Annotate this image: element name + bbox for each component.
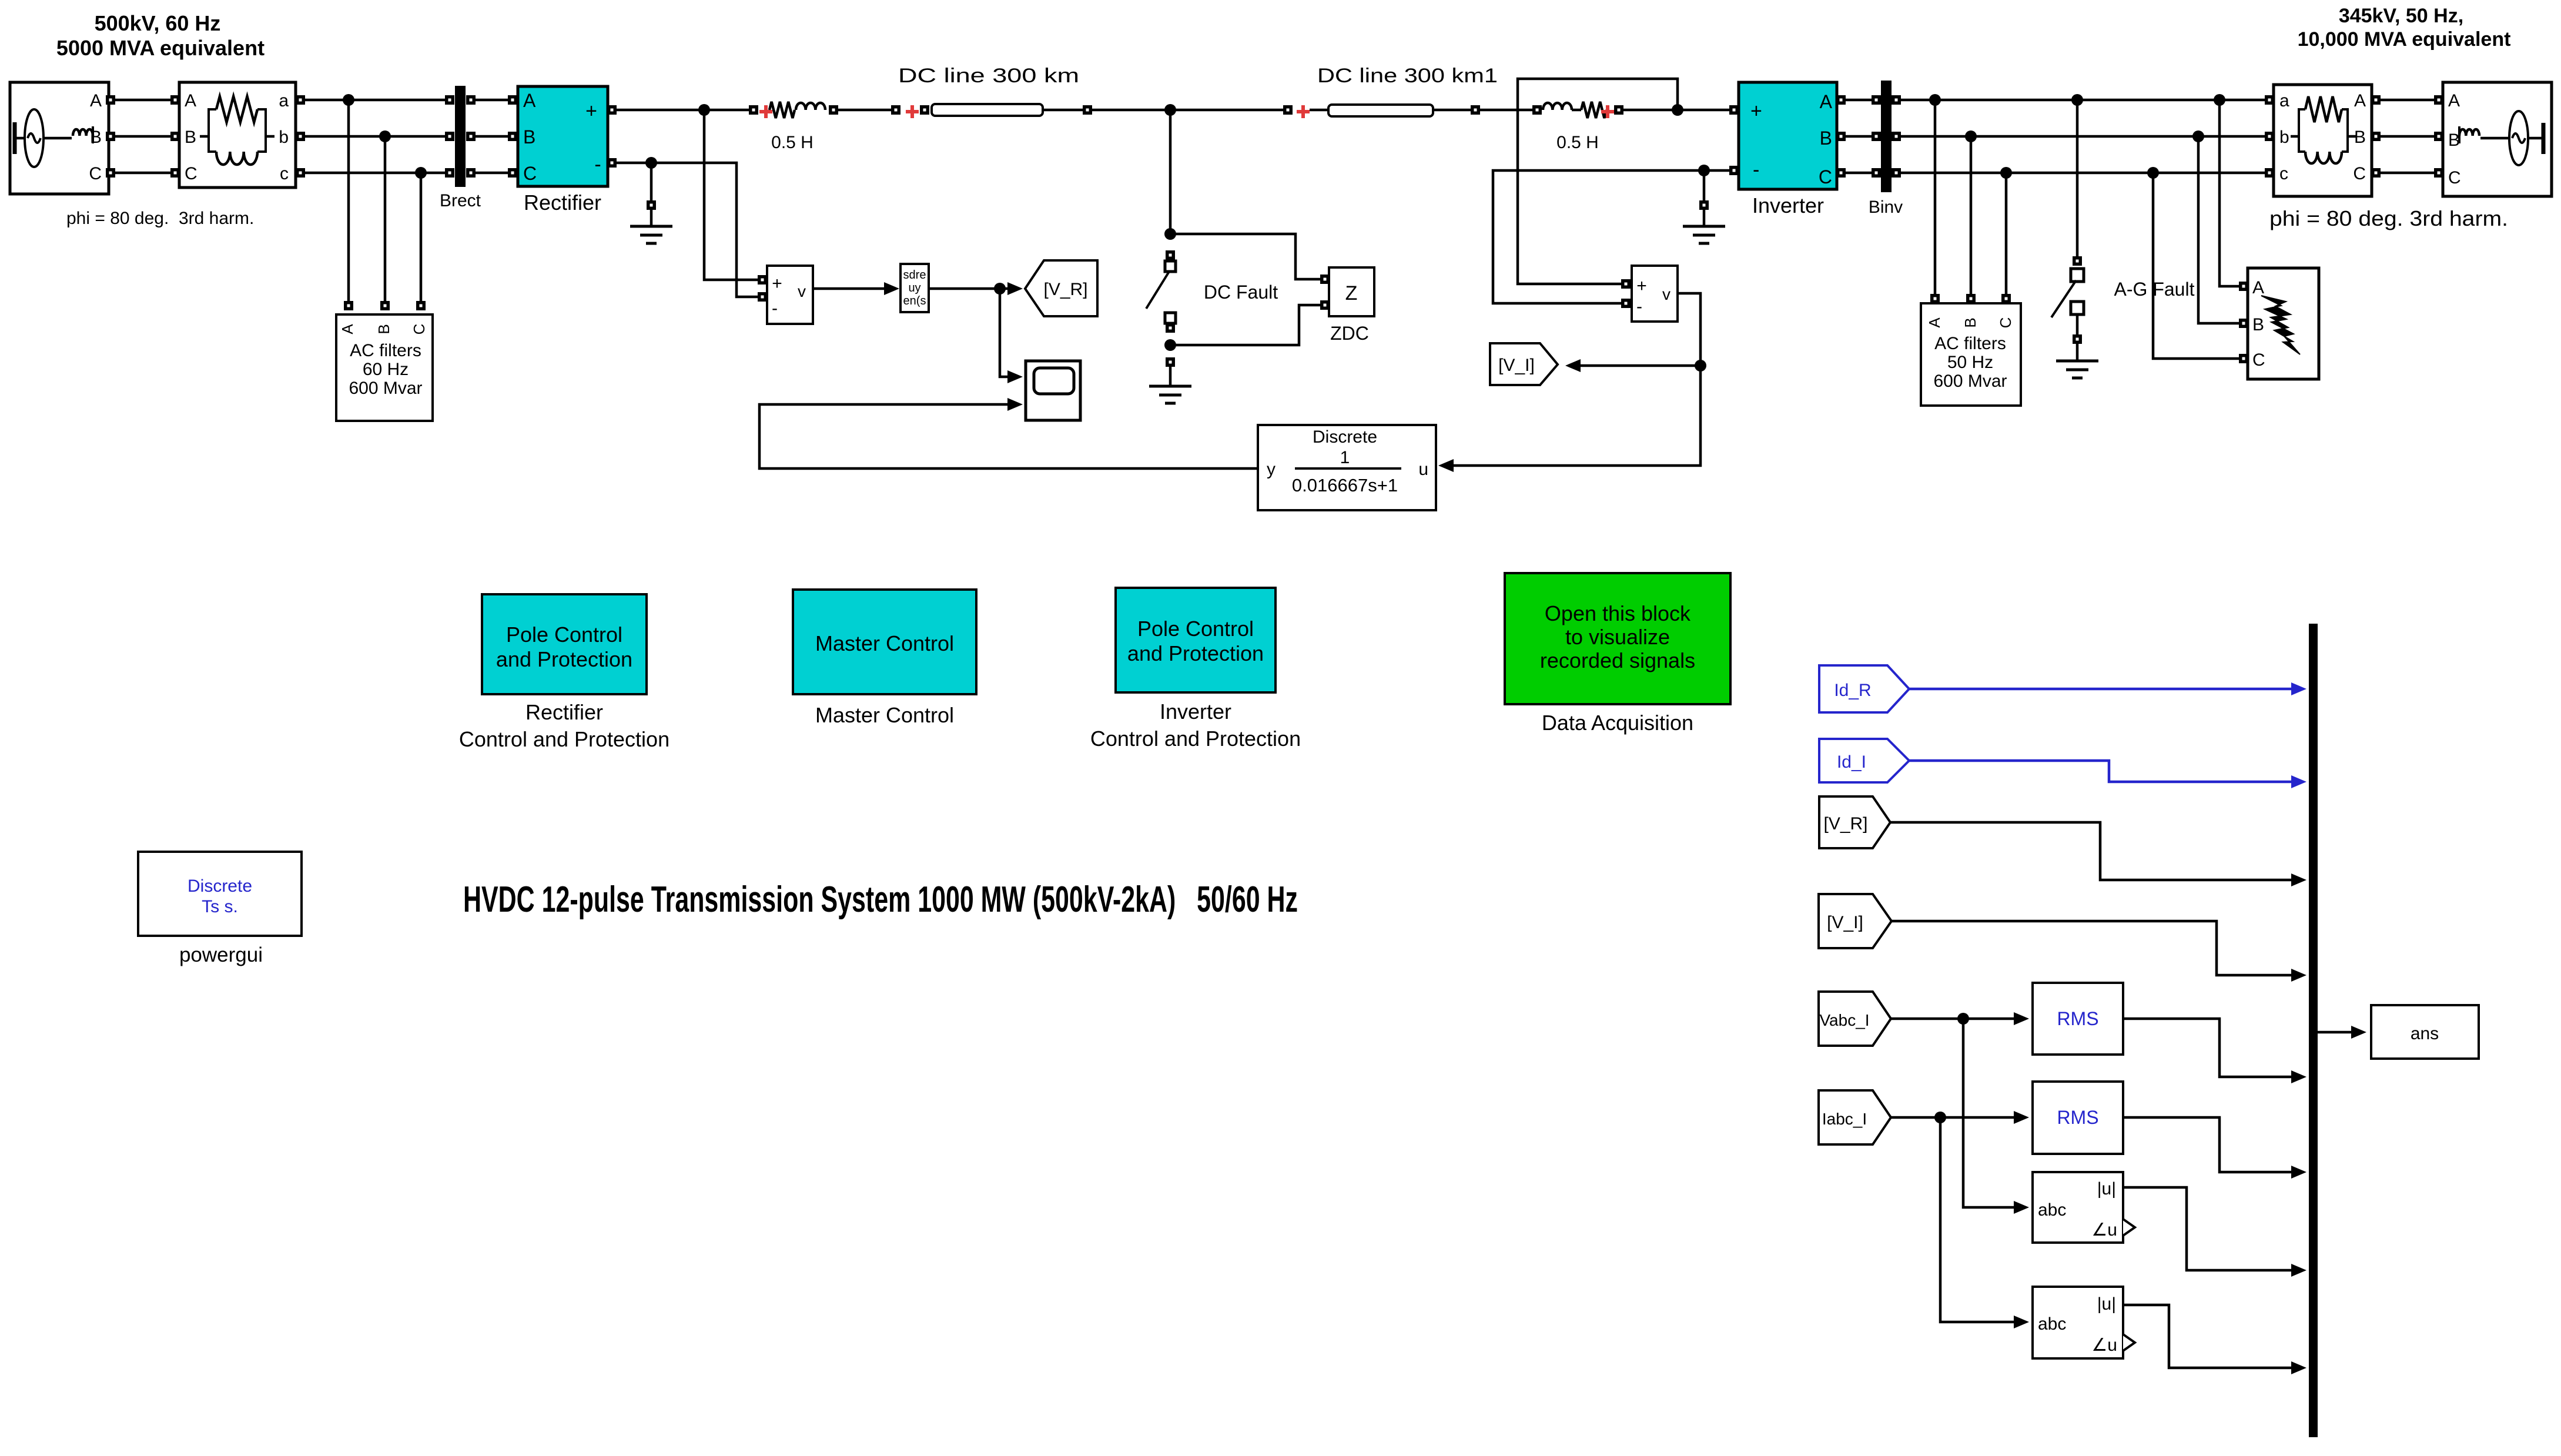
- node C filter tap: [415, 167, 427, 179]
- node C filter tap right: [2000, 167, 2012, 179]
- svg-text:and Protection: and Protection: [496, 647, 632, 671]
- svg-text:0.5 H: 0.5 H: [771, 133, 814, 152]
- wire over-loop to VM2 +: [1518, 79, 1678, 284]
- svg-text:B: B: [1961, 317, 1979, 327]
- svg-text:+: +: [1750, 100, 1762, 122]
- svg-text:Data Acquisition: Data Acquisition: [1542, 711, 1693, 735]
- svg-text:Pole Control: Pole Control: [506, 622, 622, 647]
- port smoothing reactor L1 in: [749, 105, 758, 115]
- port C AC filters 60Hz: [416, 301, 426, 310]
- red plus marker 3: [1297, 105, 1310, 118]
- port B Binv right: [1892, 132, 1901, 141]
- port DC line2 in: [1283, 105, 1293, 115]
- node B filter tap right: [1965, 130, 1977, 142]
- AC filters 50 Hz block: [1921, 303, 2021, 406]
- system impedance block right (parallel RL): [2274, 85, 2372, 196]
- port ground rectifier: [647, 200, 656, 210]
- svg-text:C: C: [2252, 350, 2265, 370]
- wire: [1572, 109, 1581, 112]
- port DC line2 out: [1471, 105, 1480, 115]
- A-G switch blade: [2051, 280, 2076, 317]
- ground of DC fault: [1149, 386, 1191, 403]
- wire down to ground port: [650, 163, 653, 200]
- wire B tap down to AC filters: [384, 136, 387, 301]
- node DC+ voltage tap: [698, 104, 710, 116]
- port A Brect right: [466, 95, 476, 105]
- arrow RMS1: [2291, 1070, 2306, 1083]
- stub wire RL box to b: [266, 135, 274, 138]
- port A AC filters 50Hz: [1930, 294, 1940, 303]
- wire to ground 2: [2076, 344, 2079, 361]
- svg-text:ZDC: ZDC: [1330, 323, 1369, 344]
- svg-text:Id_R: Id_R: [1834, 681, 1871, 700]
- svg-text:abc: abc: [2038, 1314, 2066, 1334]
- port A impedance R out: [2371, 95, 2381, 105]
- svg-text:A: A: [2354, 91, 2366, 111]
- port DC line1 in: [920, 105, 929, 115]
- node DC fault top: [1164, 228, 1176, 240]
- svg-text:C: C: [2353, 164, 2366, 183]
- svg-text:600 Mvar: 600 Mvar: [349, 379, 422, 398]
- svg-text:Binv: Binv: [1869, 198, 1903, 217]
- wire RMS1 to bus: [2123, 1019, 2294, 1077]
- port fault ground: [1166, 357, 1175, 367]
- svg-text:C: C: [523, 163, 537, 184]
- source R terminal bar: [2542, 123, 2546, 154]
- red plus marker: [759, 105, 772, 118]
- resistor of 0.5H reactor: [769, 102, 795, 118]
- wire to V_I tag: [1578, 364, 1700, 367]
- port C Binv left: [1872, 168, 1881, 178]
- svg-text:+: +: [585, 100, 597, 122]
- wire A-G switch down: [2076, 100, 2079, 259]
- svg-text:uy: uy: [908, 282, 920, 294]
- signal conversion block: [900, 264, 929, 312]
- wire C Brect-rectifier: [476, 172, 508, 175]
- svg-text:[V_I]: [V_I]: [1498, 356, 1535, 375]
- port A source L: [106, 95, 115, 105]
- svg-text:Discrete: Discrete: [1313, 427, 1377, 447]
- AC voltage source symbol right: [2509, 111, 2528, 165]
- port - rectifier out: [607, 158, 617, 168]
- arrow abc1: [2291, 1264, 2306, 1277]
- wire discrete out to scope input 2: [759, 404, 1258, 468]
- svg-text:Master Control: Master Control: [815, 703, 954, 727]
- svg-text:345kV, 50 Hz,: 345kV, 50 Hz,: [2339, 5, 2463, 27]
- port A-G switch top: [2073, 256, 2082, 266]
- port C inverter out: [1836, 168, 1846, 178]
- svg-text:v: v: [1662, 285, 1670, 303]
- svg-text:[V_I]: [V_I]: [1827, 913, 1863, 932]
- svg-text:y: y: [1267, 460, 1276, 479]
- port + inverter in: [1729, 105, 1739, 115]
- Inverter converter block: [1739, 82, 1837, 189]
- svg-text:60 Hz: 60 Hz: [363, 360, 409, 379]
- chevron output 1: [2123, 1219, 2135, 1236]
- svg-text:A: A: [1820, 91, 1833, 112]
- port B Brect right: [466, 132, 476, 141]
- svg-text:B: B: [2252, 315, 2264, 334]
- wire: [1310, 109, 1328, 112]
- arrow RMS2: [2291, 1166, 2306, 1179]
- A-G switch contact bottom: [2071, 302, 2084, 314]
- svg-text:AC filters: AC filters: [1934, 334, 2006, 353]
- breaker contact top: [1165, 261, 1176, 272]
- port smoothing reactor L2 in: [1532, 105, 1542, 115]
- parallel RL frame right: [2299, 109, 2348, 152]
- port B source R: [2434, 132, 2443, 141]
- wire: [15, 137, 25, 140]
- svg-text:DC line 300 km1: DC line 300 km1: [1317, 65, 1498, 87]
- wire reactor to inverter: [1623, 109, 1729, 112]
- wire phase B to Brect: [300, 135, 446, 138]
- svg-text:600 Mvar: 600 Mvar: [1933, 371, 2007, 391]
- stub wire RL box to B: [2348, 135, 2356, 138]
- wire line2 out: [1433, 109, 1471, 112]
- wire C down to AC filters right: [2005, 173, 2008, 294]
- source impedance coil icon: [73, 129, 93, 136]
- AC source block left (500kV equivalent source): [10, 82, 109, 194]
- svg-text:Discrete: Discrete: [188, 876, 252, 896]
- svg-text:∠u: ∠u: [2091, 1220, 2117, 1240]
- svg-text:[V_R]: [V_R]: [1823, 814, 1867, 834]
- svg-text:-: -: [1753, 159, 1759, 181]
- svg-text:[V_R]: [V_R]: [1043, 280, 1087, 299]
- goto tag V_R: [1025, 260, 1097, 316]
- svg-text:Control and Protection: Control and Protection: [459, 727, 669, 751]
- port C Brect right: [466, 168, 476, 178]
- port A Binv left: [1872, 95, 1881, 105]
- ground of A-G switch: [2056, 361, 2098, 378]
- svg-text:∠u: ∠u: [2091, 1335, 2117, 1355]
- svg-text:C: C: [185, 164, 197, 183]
- svg-text:0.016667s+1: 0.016667s+1: [1292, 475, 1398, 496]
- wire abc2 to bus: [2123, 1305, 2294, 1368]
- svg-text:a: a: [279, 91, 289, 111]
- arrow into scope input 2: [1007, 398, 1023, 411]
- port C impedance L in: [170, 168, 180, 178]
- abc magnitude-angle block 1: [2033, 1172, 2123, 1243]
- breaker contact bottom: [1165, 313, 1176, 323]
- port C source R: [2434, 168, 2443, 178]
- svg-text:recorded signals: recorded signals: [1540, 648, 1695, 672]
- svg-text:50 Hz: 50 Hz: [1947, 353, 1993, 372]
- chevron output 2: [2123, 1334, 2135, 1351]
- svg-text:+: +: [772, 274, 782, 293]
- AC filters 60 Hz block: [336, 314, 433, 421]
- svg-text:B: B: [523, 126, 535, 148]
- ZDC impedance block: [1329, 267, 1374, 316]
- svg-text:DC Fault: DC Fault: [1204, 282, 1278, 303]
- port A fault block: [2239, 282, 2248, 291]
- node Iabc branch: [1934, 1112, 1946, 1123]
- arrow into ans: [2351, 1026, 2366, 1039]
- port A inverter out: [1836, 95, 1846, 105]
- svg-text:A: A: [1926, 317, 1943, 328]
- wire abc1 to bus: [2123, 1187, 2294, 1270]
- wire branch down to scope: [1000, 289, 1016, 377]
- port C source L: [106, 168, 115, 178]
- svg-text:Open this block: Open this block: [1545, 601, 1691, 625]
- svg-text:C: C: [2448, 168, 2461, 188]
- svg-text:Pole Control: Pole Control: [1137, 617, 1254, 641]
- ground under inverter: [1683, 226, 1725, 243]
- node fault C tap: [2147, 167, 2159, 179]
- port smoothing reactor L2 out: [1614, 105, 1623, 115]
- port - VM1: [758, 292, 767, 302]
- from tag V_I: [1819, 894, 1892, 948]
- port ZDC in1: [1320, 275, 1330, 284]
- wire fault bottom to ZDC in2: [1170, 305, 1320, 345]
- Rectifier converter block: [518, 86, 608, 186]
- port + VM1: [758, 275, 767, 284]
- wire: [43, 137, 72, 140]
- arrow into V_I tag: [1565, 359, 1581, 372]
- node DC mid: [1164, 104, 1176, 116]
- wire phase B right: [1901, 135, 2265, 138]
- svg-text:Control and Protection: Control and Protection: [1090, 727, 1301, 751]
- port - inverter in: [1729, 166, 1739, 175]
- svg-text:u: u: [1418, 460, 1428, 479]
- port C AC filters 50Hz: [2001, 294, 2011, 303]
- wire A to source R: [2381, 99, 2434, 102]
- signal bus bar: [2309, 624, 2318, 1437]
- node B filter tap: [379, 130, 391, 142]
- from tag Vabc_I: [1819, 992, 1891, 1046]
- node A filter tap right: [1929, 94, 1941, 106]
- wire: [2528, 137, 2542, 140]
- svg-text:DC line 300 km: DC line 300 km: [898, 65, 1079, 87]
- port B impedance L in: [170, 132, 180, 141]
- wire A inverter-Binv: [1846, 99, 1875, 102]
- wire DC+ rectifier to smoothing reactor: [617, 109, 749, 112]
- svg-text:B: B: [375, 324, 393, 334]
- Inverter pole control block: [1116, 588, 1276, 692]
- wire phase A to Brect: [300, 99, 446, 102]
- wire Iabc down to abc2: [1940, 1117, 2017, 1322]
- wire down to ground port: [1703, 170, 1706, 200]
- fraction bar: [1295, 467, 1401, 470]
- svg-text:v: v: [798, 282, 806, 300]
- svg-text:Z: Z: [1345, 282, 1358, 304]
- port B AC filters 60Hz: [380, 301, 390, 310]
- svg-text:a: a: [2279, 91, 2289, 111]
- wire Vabc down to abc1: [1963, 1019, 2017, 1207]
- svg-text:Master Control: Master Control: [815, 631, 954, 655]
- red plus marker 4: [1601, 105, 1614, 118]
- wire Id_I to bus: [1909, 761, 2294, 782]
- svg-text:phi = 80 deg. 3rd harm.: phi = 80 deg. 3rd harm.: [66, 209, 254, 228]
- svg-text:b: b: [279, 128, 289, 147]
- svg-text:1: 1: [1340, 448, 1350, 467]
- svg-text:and Protection: and Protection: [1127, 641, 1264, 665]
- svg-text:b: b: [2279, 128, 2289, 147]
- from tag Id_I: [1819, 739, 1909, 782]
- arrow V_I: [2291, 969, 2306, 982]
- source L terminal bar: [13, 122, 17, 154]
- wire fault A: [2219, 100, 2239, 286]
- from tag Id_R: [1819, 665, 1909, 712]
- wire: [650, 210, 653, 226]
- port breaker bottom: [1166, 323, 1175, 333]
- wire bus to ans: [2318, 1031, 2354, 1034]
- port ground inverter: [1699, 200, 1709, 210]
- wire phase C source-impedance: [115, 172, 170, 175]
- port c impedance R: [2265, 168, 2274, 178]
- wire fault C: [2153, 173, 2239, 359]
- arrow into conversion block: [884, 282, 899, 295]
- node Vabc branch: [1957, 1013, 1969, 1025]
- svg-text:A: A: [2448, 91, 2460, 111]
- stub wire b to RL box: [2291, 135, 2299, 138]
- wire RMS2 to bus: [2123, 1117, 2294, 1172]
- wire: [2480, 137, 2508, 140]
- port a impedance R: [2265, 95, 2274, 105]
- wire fault node to ZDC in1: [1170, 234, 1320, 279]
- wire phase B source-impedance: [115, 135, 170, 138]
- wire reactor to line segment: [838, 109, 891, 112]
- wire DC- rectifier: [617, 163, 758, 297]
- arrow into RMS1: [2014, 1012, 2029, 1025]
- wire to ground: [2076, 313, 2079, 334]
- ground under rectifier: [630, 226, 672, 243]
- source impedance coil icon right: [2459, 129, 2479, 136]
- wire: [1703, 210, 1706, 226]
- wire A down to AC filters right: [1934, 100, 1937, 294]
- arrow into abc2: [2014, 1316, 2029, 1328]
- AC voltage source symbol (ellipse with sine): [25, 109, 43, 167]
- inductor L of parallel RL right: [2305, 152, 2342, 163]
- port A AC filters 60Hz: [344, 301, 353, 310]
- svg-text:+: +: [1636, 276, 1647, 296]
- node V_I branch: [1695, 360, 1706, 371]
- wire phase A right: [1901, 99, 2265, 102]
- port C rectifier: [508, 168, 517, 178]
- port ZDC in2: [1320, 300, 1330, 310]
- arrow into discrete block: [1438, 459, 1454, 472]
- wire C tap down to AC filters: [420, 173, 423, 301]
- wire B to source R: [2381, 135, 2434, 138]
- svg-text:-: -: [594, 153, 601, 176]
- port B impedance R out: [2371, 132, 2381, 141]
- svg-text:Id_I: Id_I: [1837, 752, 1866, 772]
- Brect bus bar: [455, 86, 466, 187]
- svg-text:5000 MVA equivalent: 5000 MVA equivalent: [56, 36, 265, 60]
- svg-text:C: C: [89, 164, 102, 183]
- port C impedance R out: [2371, 168, 2381, 178]
- AC source block right (345kV equivalent source): [2443, 82, 2552, 196]
- svg-text:-: -: [1636, 297, 1642, 316]
- RMS block 1: [2033, 983, 2123, 1055]
- port A-G switch bottom: [2073, 334, 2082, 344]
- port - VM2: [1621, 299, 1631, 308]
- svg-text:RMS: RMS: [2057, 1107, 2098, 1128]
- wire fault B: [2198, 136, 2239, 323]
- port B fault block: [2239, 319, 2248, 328]
- svg-text:Inverter: Inverter: [1160, 699, 1231, 724]
- resistor R of parallel RL right: [2305, 96, 2342, 122]
- Master Control block: [793, 590, 976, 694]
- wire B Brect-rectifier: [476, 135, 508, 138]
- arrow into scope input 1: [1007, 370, 1023, 383]
- wire C inverter-Binv: [1846, 172, 1875, 175]
- wire phase C to Brect: [300, 172, 446, 175]
- resistor R of parallel RL: [216, 96, 257, 122]
- Rectifier pole control block: [482, 594, 647, 694]
- svg-text:Ts s.: Ts s.: [202, 897, 238, 916]
- port B rectifier: [508, 132, 517, 141]
- port b impedance R: [2265, 132, 2274, 141]
- node DC- ground tap: [645, 157, 657, 169]
- port + rectifier out: [607, 105, 617, 115]
- svg-text:B: B: [1820, 128, 1832, 149]
- wire inverter minus: [1493, 170, 1729, 303]
- port breaker top: [1166, 250, 1175, 260]
- svg-text:C: C: [410, 324, 428, 335]
- A-G switch contact top: [2071, 269, 2084, 282]
- svg-text:abc: abc: [2038, 1200, 2066, 1220]
- RMS block 2: [2033, 1082, 2123, 1154]
- DC line 300 km1 block: [1328, 105, 1433, 116]
- arrow Id_I: [2291, 775, 2306, 788]
- svg-text:Rectifier: Rectifier: [525, 700, 603, 724]
- DC line 300 km block: [932, 104, 1043, 116]
- inductor L of parallel RL: [216, 152, 257, 165]
- wire DC mid node down: [1169, 110, 1172, 234]
- svg-text:en(s: en(s: [903, 294, 926, 307]
- abc magnitude-angle block 2: [2033, 1287, 2123, 1358]
- goto tag V_I: [1490, 343, 1558, 385]
- svg-text:c: c: [280, 164, 289, 183]
- arrow Id_R: [2291, 682, 2306, 695]
- port A Brect left: [445, 95, 454, 105]
- port A source R: [2434, 95, 2443, 105]
- svg-text:C: C: [1819, 166, 1832, 188]
- node fault A tap: [2214, 94, 2225, 106]
- resistor of inverter 0.5H reactor: [1581, 102, 1606, 118]
- inductor of 0.5H reactor: [796, 103, 825, 110]
- Binv bus bar: [1881, 81, 1892, 192]
- port C Brect left: [445, 168, 454, 178]
- svg-text:B: B: [185, 128, 196, 147]
- svg-text:RMS: RMS: [2057, 1008, 2098, 1029]
- arrow abc2: [2291, 1361, 2306, 1374]
- wire Id_R to bus: [1909, 688, 2294, 691]
- port smoothing reactor L1 out: [829, 105, 838, 115]
- wire Iabc_I to RMS2: [1891, 1116, 2017, 1119]
- svg-text:Vabc_I: Vabc_I: [1819, 1011, 1869, 1029]
- svg-text:Rectifier: Rectifier: [524, 190, 601, 215]
- port current measure in: [891, 105, 900, 115]
- port B Binv left: [1872, 132, 1881, 141]
- port B inverter out: [1836, 132, 1846, 141]
- node A-G switch tap: [2071, 94, 2083, 106]
- wire VM2 out down to discrete: [1445, 293, 1700, 466]
- port C fault block: [2239, 354, 2248, 363]
- svg-text:|u|: |u|: [2097, 1294, 2116, 1314]
- node V_R branch: [994, 283, 1006, 294]
- port A rectifier: [508, 95, 517, 105]
- powergui block: [138, 852, 302, 936]
- svg-text:A: A: [523, 90, 536, 111]
- port A impedance L in: [170, 95, 180, 105]
- svg-text:A: A: [2252, 278, 2264, 297]
- svg-text:AC filters: AC filters: [350, 341, 421, 360]
- port B Brect left: [445, 132, 454, 141]
- arrow into RMS2: [2014, 1111, 2029, 1124]
- svg-text:500kV, 60 Hz: 500kV, 60 Hz: [95, 11, 221, 35]
- node inverter DC+ tap: [1672, 104, 1683, 116]
